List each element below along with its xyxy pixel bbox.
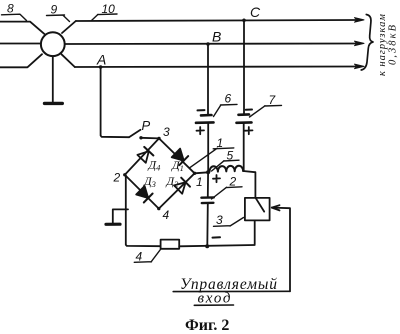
svg-text:4: 4 bbox=[163, 208, 170, 222]
svg-text:8: 8 bbox=[7, 2, 14, 16]
svg-text:к нагрузкам: к нагрузкам bbox=[377, 14, 388, 76]
svg-text:B: B bbox=[212, 29, 221, 45]
svg-text:2: 2 bbox=[113, 171, 121, 185]
svg-text:4: 4 bbox=[136, 250, 143, 264]
svg-text:1: 1 bbox=[217, 136, 224, 150]
svg-text:3: 3 bbox=[216, 213, 223, 227]
svg-text:Фиг. 2: Фиг. 2 bbox=[185, 317, 229, 334]
svg-text:Д2: Д2 bbox=[166, 174, 180, 189]
svg-text:Д3: Д3 bbox=[143, 174, 156, 189]
svg-text:3: 3 bbox=[163, 125, 170, 139]
svg-text:9: 9 bbox=[51, 3, 58, 17]
svg-text:C: C bbox=[250, 4, 261, 20]
svg-text:вход: вход bbox=[198, 291, 231, 307]
svg-text:A: A bbox=[96, 52, 106, 68]
svg-text:7: 7 bbox=[269, 93, 277, 107]
svg-text:1: 1 bbox=[196, 175, 203, 189]
svg-text:Д4: Д4 bbox=[148, 158, 162, 173]
svg-text:6: 6 bbox=[225, 92, 232, 106]
svg-text:10: 10 bbox=[102, 2, 116, 16]
svg-text:5: 5 bbox=[227, 149, 234, 163]
svg-text:0,38кВ: 0,38кВ bbox=[388, 24, 399, 65]
svg-text:2: 2 bbox=[229, 175, 237, 189]
svg-text:P: P bbox=[142, 118, 151, 133]
